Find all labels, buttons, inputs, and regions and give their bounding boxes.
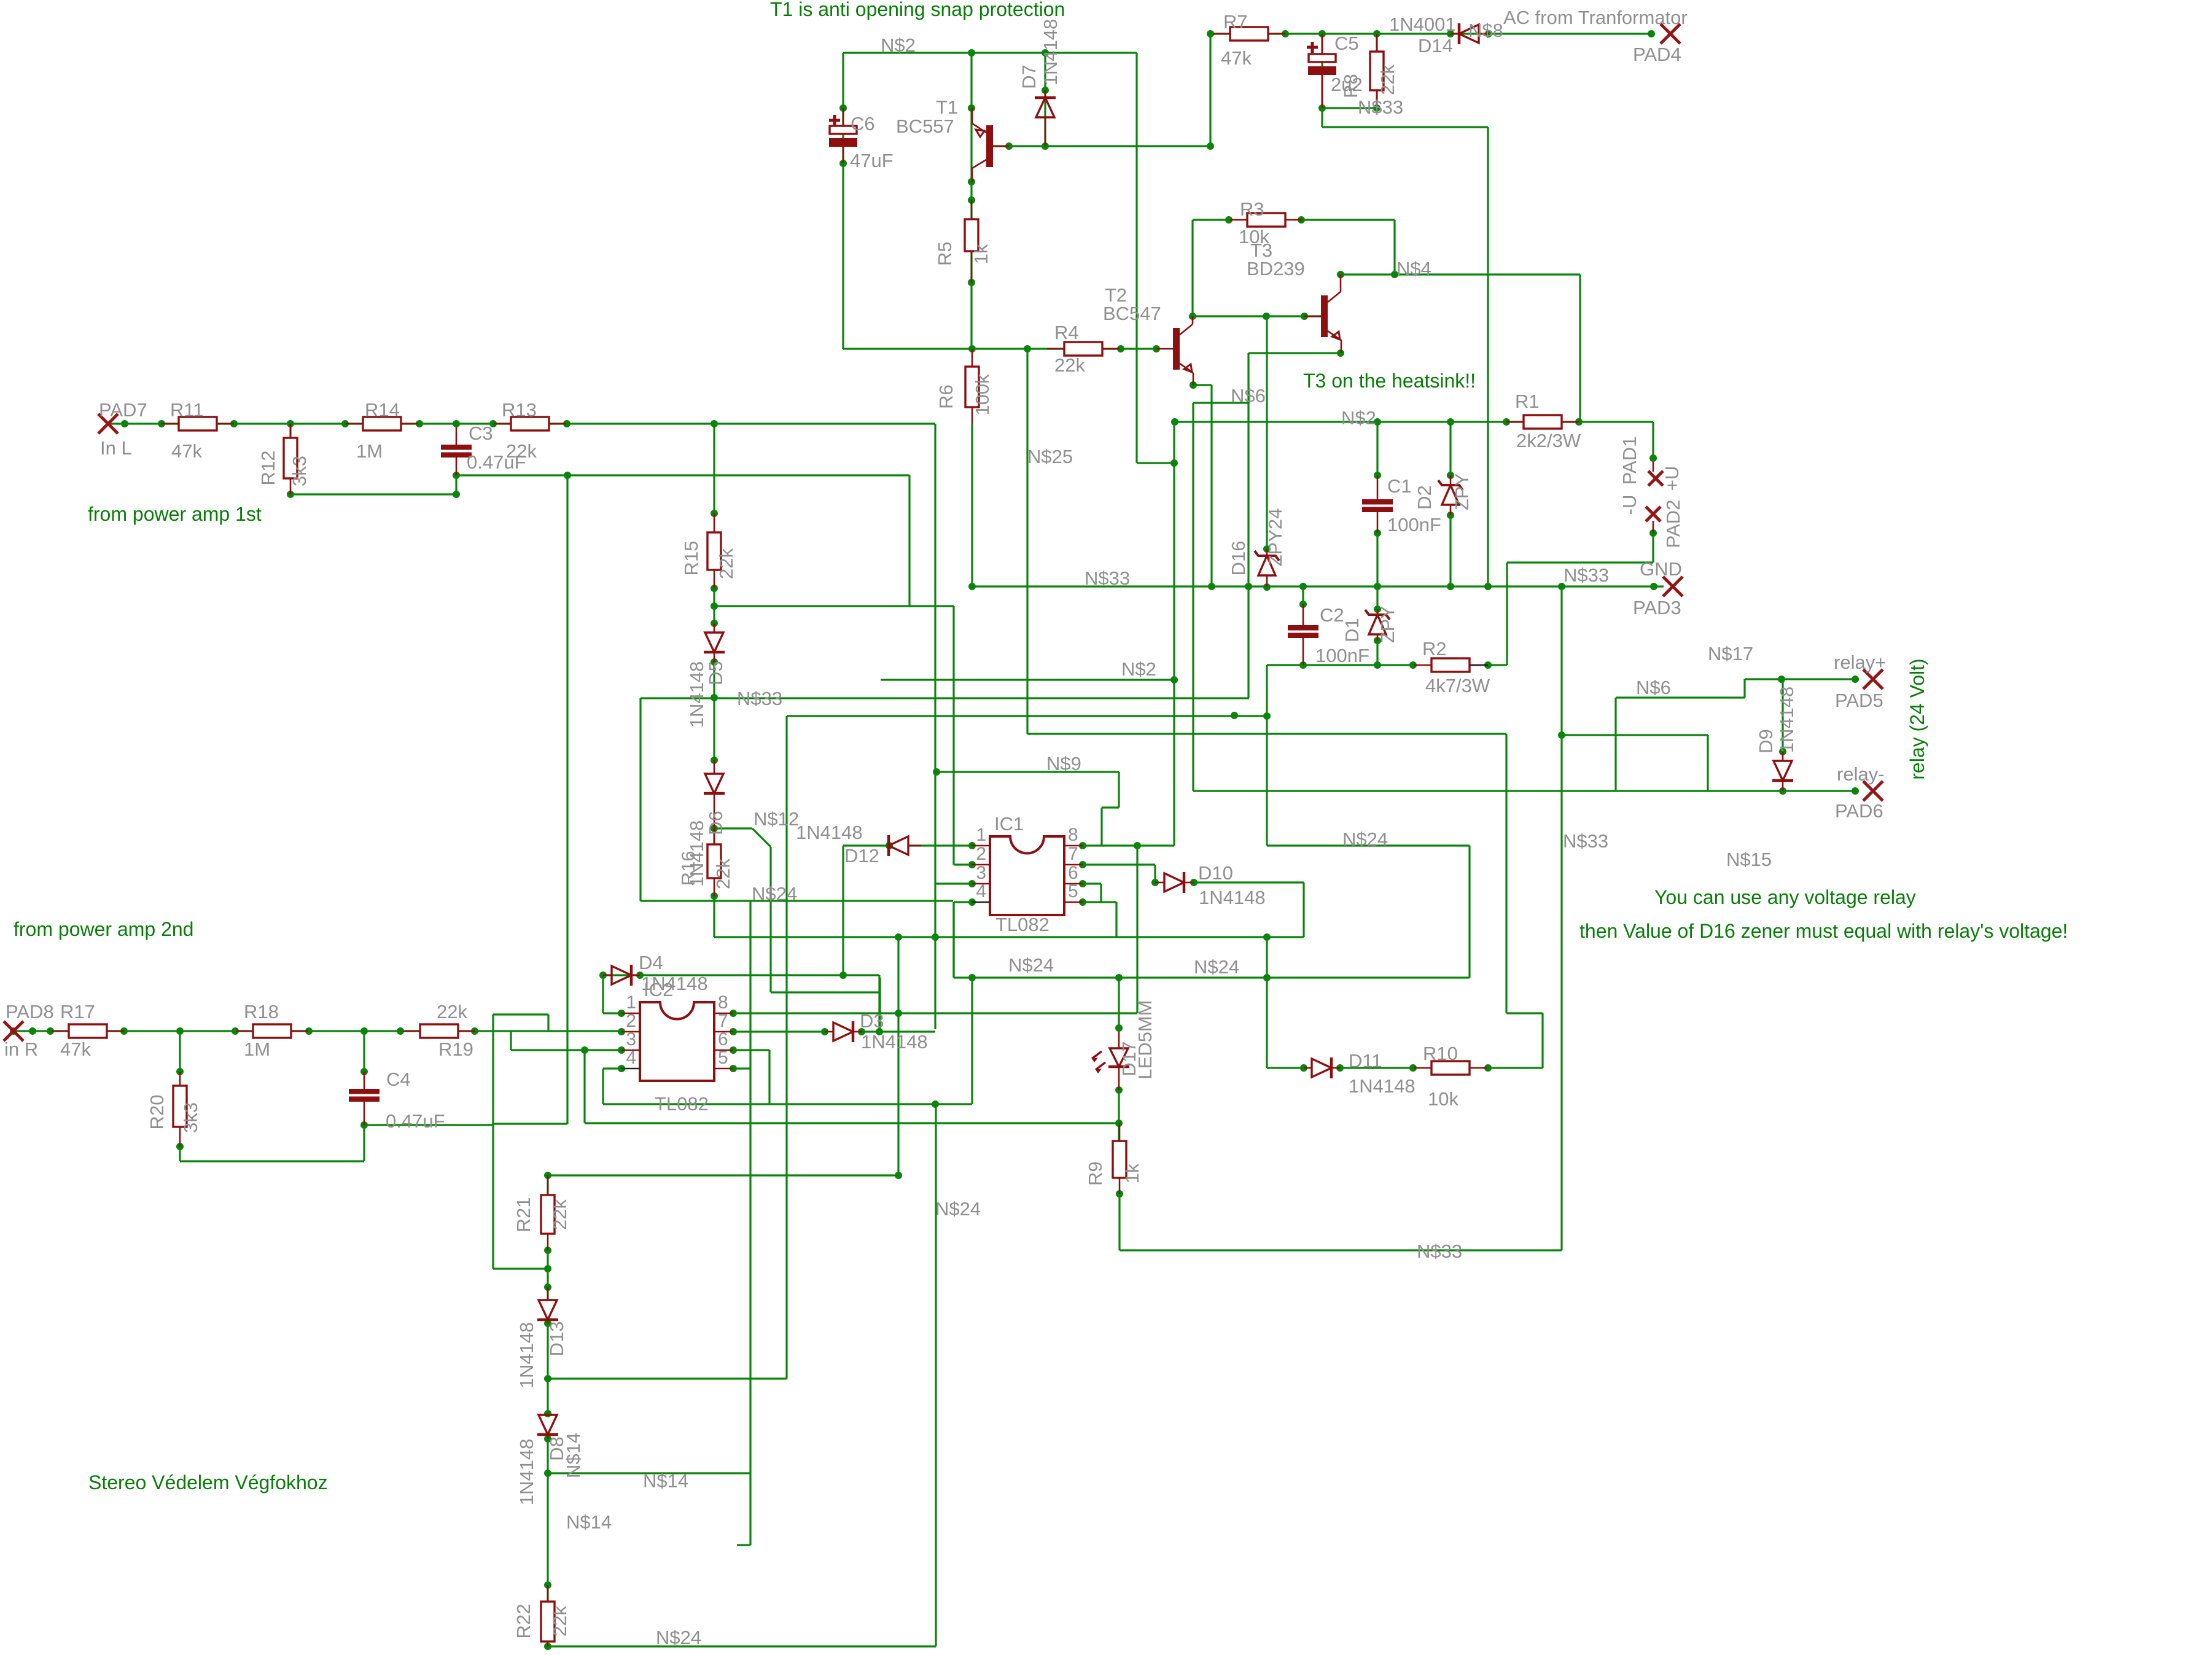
- svg-text:D14: D14: [1418, 35, 1453, 56]
- svg-text:R5: R5: [934, 241, 956, 266]
- svg-text:1k: 1k: [970, 244, 992, 264]
- svg-text:N$4: N$4: [1396, 258, 1431, 279]
- svg-text:relay (24 Volt): relay (24 Volt): [1906, 658, 1928, 779]
- svg-text:N$6: N$6: [1231, 385, 1266, 407]
- svg-text:R3: R3: [1240, 198, 1264, 220]
- svg-text:22k: 22k: [549, 1606, 571, 1637]
- svg-text:4: 4: [976, 881, 986, 901]
- svg-text:N$17: N$17: [1708, 643, 1753, 664]
- svg-text:N$2: N$2: [1341, 407, 1376, 429]
- svg-text:1N4148: 1N4148: [861, 1031, 928, 1053]
- svg-text:TL082: TL082: [655, 1093, 709, 1115]
- svg-text:3: 3: [976, 863, 986, 883]
- svg-text:1N4001: 1N4001: [1389, 14, 1456, 35]
- svg-text:relay-: relay-: [1837, 763, 1885, 785]
- svg-text:PAD6: PAD6: [1835, 800, 1883, 822]
- svg-text:N$9: N$9: [1046, 753, 1081, 774]
- svg-text:1M: 1M: [356, 440, 383, 462]
- svg-text:D1: D1: [1341, 618, 1363, 642]
- svg-text:D12: D12: [844, 845, 879, 866]
- svg-text:N$24: N$24: [1342, 828, 1388, 850]
- svg-text:22k: 22k: [1377, 64, 1398, 95]
- svg-text:D4: D4: [639, 952, 663, 973]
- svg-text:PAD2: PAD2: [1662, 500, 1684, 548]
- svg-text:4: 4: [626, 1048, 636, 1068]
- svg-text:R14: R14: [365, 399, 400, 421]
- svg-text:R13: R13: [502, 399, 537, 421]
- svg-text:from power amp 2nd: from power amp 2nd: [14, 918, 193, 940]
- svg-text:D11: D11: [1349, 1050, 1382, 1072]
- svg-text:N$33: N$33: [1417, 1240, 1462, 1262]
- svg-text:R16: R16: [677, 851, 699, 886]
- svg-text:C2: C2: [1320, 604, 1344, 626]
- svg-text:PAD4: PAD4: [1633, 44, 1681, 65]
- svg-text:R21: R21: [513, 1197, 534, 1232]
- svg-text:22k: 22k: [715, 548, 737, 579]
- svg-text:0.47uF: 0.47uF: [386, 1110, 445, 1132]
- svg-text:N$2: N$2: [881, 34, 916, 56]
- svg-text:R22: R22: [513, 1604, 534, 1639]
- svg-text:C4: C4: [386, 1069, 411, 1090]
- svg-text:PAD1: PAD1: [1619, 437, 1640, 485]
- svg-text:22k: 22k: [1054, 354, 1085, 376]
- svg-text:Stereo Védelem Végfokhoz: Stereo Védelem Végfokhoz: [88, 1471, 328, 1493]
- svg-text:7: 7: [1068, 844, 1078, 864]
- svg-text:N$33: N$33: [1085, 567, 1130, 589]
- svg-text:PAD5: PAD5: [1835, 690, 1883, 711]
- svg-text:8: 8: [718, 992, 728, 1013]
- svg-text:47uF: 47uF: [850, 150, 894, 171]
- svg-text:D10: D10: [1198, 862, 1233, 884]
- svg-text:PAD8: PAD8: [6, 1001, 54, 1022]
- svg-text:LED5MM: LED5MM: [1134, 1000, 1156, 1079]
- svg-text:22k: 22k: [437, 1001, 467, 1022]
- svg-text:100nF: 100nF: [1387, 514, 1441, 535]
- svg-text:10k: 10k: [1428, 1088, 1458, 1110]
- svg-text:T3 on the heatsink!!: T3 on the heatsink!!: [1303, 370, 1476, 392]
- svg-text:R9: R9: [1085, 1161, 1106, 1186]
- svg-text:D16: D16: [1228, 541, 1249, 576]
- svg-text:R20: R20: [146, 1095, 168, 1130]
- svg-text:N$15: N$15: [1726, 849, 1772, 870]
- svg-text:0.47uF: 0.47uF: [467, 451, 526, 473]
- svg-text:N$24: N$24: [935, 1198, 981, 1220]
- svg-text:N$12: N$12: [754, 808, 799, 830]
- svg-text:R18: R18: [244, 1001, 279, 1022]
- svg-text:N$25: N$25: [1027, 446, 1073, 467]
- svg-text:6: 6: [1068, 863, 1078, 883]
- svg-text:1N4148: 1N4148: [1776, 687, 1797, 754]
- svg-text:5: 5: [1068, 881, 1078, 901]
- svg-text:IC1: IC1: [994, 813, 1024, 835]
- svg-text:ZPY: ZPY: [1451, 473, 1473, 510]
- svg-text:4k7/3W: 4k7/3W: [1425, 675, 1490, 696]
- svg-text:PAD3: PAD3: [1633, 597, 1681, 618]
- svg-text:N$33: N$33: [1564, 564, 1609, 586]
- svg-text:C5: C5: [1334, 33, 1359, 54]
- svg-text:from power amp 1st: from power amp 1st: [88, 503, 262, 525]
- svg-text:N$33: N$33: [1358, 96, 1403, 118]
- svg-text:relay+: relay+: [1834, 652, 1886, 673]
- svg-text:In L: In L: [100, 437, 132, 459]
- svg-text:D9: D9: [1755, 729, 1777, 754]
- svg-text:T1 is anti opening snap protec: T1 is anti opening snap protection: [770, 0, 1065, 20]
- svg-text:BC547: BC547: [1103, 303, 1161, 324]
- svg-text:1M: 1M: [244, 1038, 270, 1060]
- svg-text:3k3: 3k3: [180, 1102, 201, 1133]
- svg-text:R15: R15: [680, 541, 702, 576]
- svg-text:100k: 100k: [972, 374, 993, 416]
- svg-text:N$33: N$33: [1563, 830, 1608, 852]
- svg-text:2k2/3W: 2k2/3W: [1516, 430, 1581, 451]
- svg-text:N$6: N$6: [1636, 677, 1671, 698]
- svg-text:ZPY24: ZPY24: [1264, 508, 1286, 567]
- svg-text:1N4148: 1N4148: [796, 822, 863, 843]
- svg-text:N$14: N$14: [643, 1470, 688, 1492]
- svg-text:3k3: 3k3: [289, 456, 310, 486]
- svg-text:2: 2: [626, 1011, 636, 1031]
- svg-text:D13: D13: [546, 1322, 567, 1357]
- svg-text:D6: D6: [705, 811, 726, 835]
- svg-text:6: 6: [718, 1029, 728, 1049]
- svg-text:7: 7: [718, 1011, 728, 1031]
- svg-text:T1: T1: [936, 96, 958, 118]
- svg-text:2: 2: [976, 844, 986, 864]
- svg-text:BD239: BD239: [1247, 258, 1305, 279]
- svg-text:C6: C6: [851, 113, 875, 134]
- svg-text:R4: R4: [1054, 322, 1079, 343]
- svg-text:R2: R2: [1422, 638, 1447, 660]
- svg-text:47k: 47k: [171, 440, 202, 462]
- svg-text:100nF: 100nF: [1315, 645, 1369, 666]
- svg-text:R19: R19: [438, 1038, 473, 1060]
- svg-text:1N4148: 1N4148: [516, 1322, 537, 1389]
- svg-text:1: 1: [626, 992, 636, 1013]
- svg-text:N$24: N$24: [656, 1627, 701, 1648]
- svg-text:R8: R8: [1340, 74, 1361, 98]
- svg-text:R1: R1: [1515, 391, 1540, 412]
- svg-text:1N4148: 1N4148: [1349, 1075, 1416, 1097]
- svg-text:47k: 47k: [60, 1038, 91, 1060]
- svg-text:You can use any voltage relay: You can use any voltage relay: [1654, 886, 1916, 908]
- svg-text:+U: +U: [1661, 466, 1683, 491]
- svg-text:1N4148: 1N4148: [686, 661, 707, 728]
- svg-text:R11: R11: [170, 399, 204, 421]
- svg-text:D5: D5: [705, 661, 726, 685]
- svg-text:R10: R10: [1423, 1043, 1458, 1064]
- svg-text:1k: 1k: [1121, 1163, 1143, 1183]
- svg-text:BC557: BC557: [896, 115, 954, 137]
- svg-text:N$33: N$33: [737, 688, 782, 709]
- svg-text:GND: GND: [1640, 558, 1682, 580]
- svg-text:R7: R7: [1223, 11, 1248, 33]
- svg-text:in R: in R: [4, 1038, 38, 1060]
- svg-text:N$2: N$2: [1121, 658, 1156, 680]
- svg-text:N$8: N$8: [1468, 20, 1503, 41]
- svg-text:3: 3: [626, 1029, 636, 1049]
- svg-text:1N4148: 1N4148: [516, 1439, 537, 1506]
- svg-text:C3: C3: [469, 423, 493, 444]
- svg-text:TL082: TL082: [995, 914, 1050, 935]
- svg-text:D7: D7: [1018, 64, 1040, 89]
- svg-text:47k: 47k: [1221, 47, 1252, 69]
- svg-text:N$14: N$14: [563, 1433, 584, 1478]
- svg-text:N$24: N$24: [1194, 956, 1239, 978]
- svg-text:AC from Tranformator: AC from Tranformator: [1503, 7, 1688, 28]
- svg-text:D2: D2: [1414, 485, 1435, 510]
- svg-text:R17: R17: [60, 1001, 95, 1022]
- svg-text:R12: R12: [257, 451, 279, 486]
- svg-text:5: 5: [718, 1048, 728, 1068]
- svg-text:N$14: N$14: [566, 1511, 612, 1533]
- svg-text:N$24: N$24: [1008, 954, 1054, 976]
- svg-text:IC2: IC2: [644, 979, 673, 1000]
- svg-text:1N4148: 1N4148: [1199, 887, 1266, 908]
- svg-text:PAD7: PAD7: [99, 399, 147, 421]
- svg-text:1N4148: 1N4148: [1040, 19, 1061, 86]
- svg-text:-U: -U: [1619, 495, 1640, 515]
- svg-text:D3: D3: [860, 1010, 884, 1032]
- svg-text:8: 8: [1068, 825, 1078, 845]
- svg-text:R6: R6: [935, 384, 957, 409]
- svg-text:22k: 22k: [712, 859, 734, 889]
- svg-text:then Value of D16 zener must e: then Value of D16 zener must equal with …: [1579, 920, 2068, 942]
- svg-text:22k: 22k: [549, 1199, 571, 1230]
- svg-text:ZPY: ZPY: [1377, 606, 1398, 643]
- svg-text:N$24: N$24: [752, 883, 797, 905]
- svg-text:C1: C1: [1387, 475, 1412, 497]
- svg-text:1: 1: [976, 825, 986, 845]
